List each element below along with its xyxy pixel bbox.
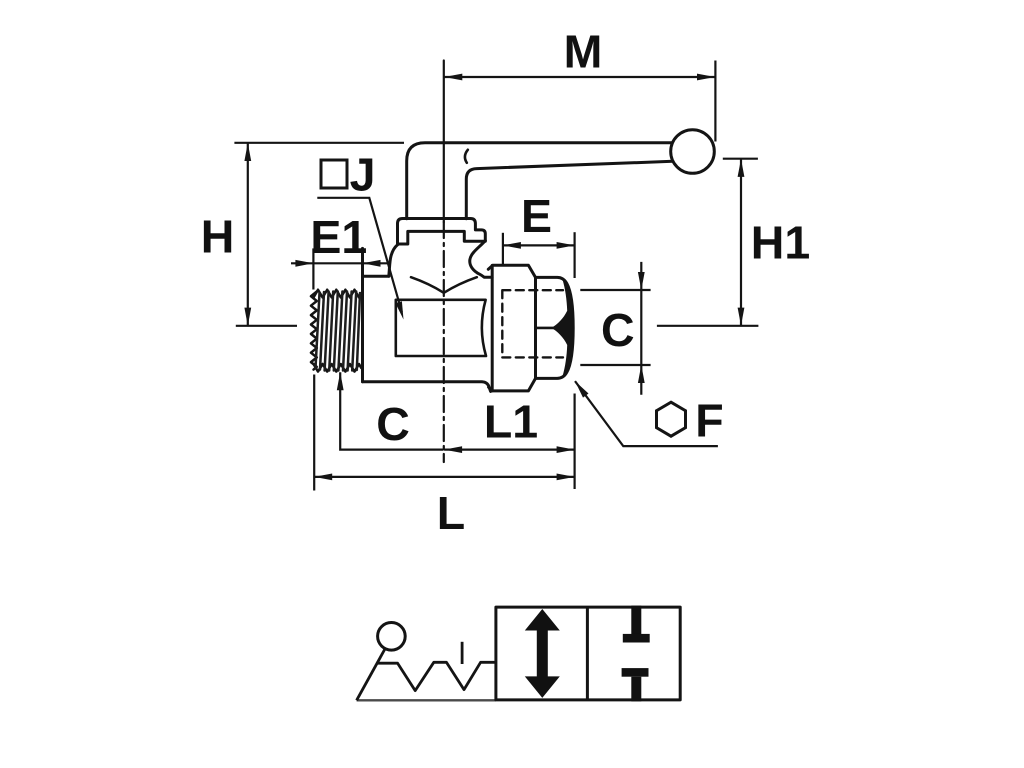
svg-text:M: M (564, 26, 603, 78)
J square symbol (321, 160, 347, 188)
dim L1 (444, 449, 574, 451)
dim E1 (291, 262, 390, 264)
dim E (503, 244, 575, 246)
lever knob circle (378, 623, 406, 651)
pneumatic symbol (357, 607, 681, 700)
svg-text:C: C (601, 304, 635, 356)
male thread teeth top (314, 290, 362, 298)
flow arrow in box 1 (525, 609, 560, 698)
handle lever lower edge (466, 161, 673, 219)
svg-text:H1: H1 (751, 217, 810, 269)
valve neck right (470, 241, 492, 278)
handle ball end (671, 130, 715, 174)
svg-text:L1: L1 (484, 396, 538, 448)
handle lever outline (407, 143, 673, 219)
dim H ticks (234, 142, 404, 144)
leader F (575, 381, 718, 446)
male thread teeth bottom (314, 364, 362, 372)
dim H1 ticks (723, 158, 758, 160)
svg-text:H: H (201, 211, 235, 263)
arrowheads (244, 74, 744, 481)
leader J (317, 198, 402, 312)
lever slant (357, 649, 386, 701)
hex/cylinder boundary (534, 277, 537, 378)
spring zigzag (378, 662, 496, 690)
svg-text:E: E (521, 190, 552, 242)
hex face shading (551, 280, 573, 377)
valve boxes (496, 607, 680, 700)
union nut left face (491, 265, 494, 391)
thread hatch (316, 292, 361, 371)
stem cap underside (398, 231, 486, 244)
blocked port top T (631, 606, 641, 635)
blocked port bottom T (622, 668, 649, 677)
ball crown arcs (411, 277, 477, 293)
hidden bore (dashed) (502, 290, 563, 357)
svg-text:F: F (695, 395, 723, 447)
male thread teeth left (311, 292, 317, 370)
dim L (314, 476, 574, 478)
label squares/hexagon (321, 160, 686, 436)
dim C right (580, 289, 650, 291)
centerline (443, 61, 445, 223)
svg-text:C: C (376, 398, 410, 450)
svg-text:L: L (437, 487, 465, 539)
valve neck left (389, 245, 398, 276)
symbol baseline (357, 699, 496, 701)
hex mid edge (536, 327, 555, 330)
dimensions (234, 61, 758, 491)
handle grip mark (465, 150, 468, 163)
body outline (361, 248, 364, 381)
F hexagon symbol (657, 402, 686, 436)
internal square (ball chamber) (396, 300, 486, 356)
svg-text:E1: E1 (310, 211, 367, 263)
svg-text:J: J (350, 149, 376, 201)
stem cap (packing nut) outer (398, 219, 486, 245)
union nut outline top (488, 265, 573, 391)
dim C bottom (340, 372, 443, 449)
detent tick (461, 642, 464, 664)
dim M (445, 76, 715, 78)
